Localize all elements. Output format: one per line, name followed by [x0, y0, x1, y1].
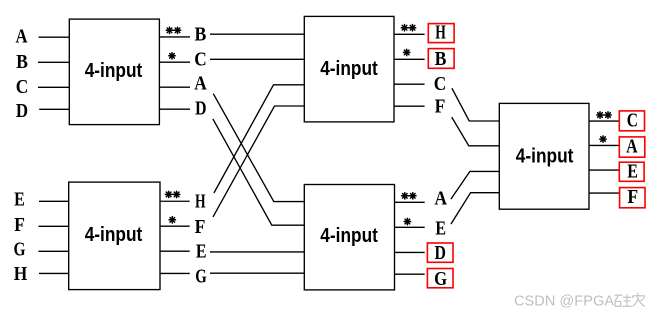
wire U5 output stub E	[160, 250, 190, 252]
4-input block U4	[499, 103, 589, 209]
svg-text:D: D	[195, 98, 206, 120]
wire U5 output stub H	[160, 200, 190, 202]
4-input block U3	[304, 185, 394, 290]
svg-text:A: A	[434, 188, 447, 210]
svg-text:D: D	[16, 100, 28, 122]
red result box E (U4 output 3)	[619, 162, 644, 181]
wire U1 output stub D	[159, 108, 190, 110]
wire U4 output stub E	[589, 169, 620, 171]
svg-text:H: H	[195, 191, 206, 213]
marker ** on U1 output 1	[166, 27, 180, 33]
red result box H (U2 output 1)	[428, 24, 454, 43]
svg-text:4-input: 4-input	[85, 59, 143, 82]
wire B to U2 input 1	[210, 33, 304, 35]
svg-text:4-input: 4-input	[320, 224, 378, 247]
marker * on U2 output 2	[404, 49, 410, 55]
svg-text:B: B	[195, 24, 207, 46]
svg-text:D: D	[435, 242, 446, 264]
svg-text:G: G	[434, 268, 447, 290]
wire U3 output stub A	[395, 201, 425, 203]
wire E to U3 input 3	[210, 251, 304, 253]
wire input H to U5	[39, 272, 69, 274]
wire U1 output stub A	[159, 86, 190, 88]
wire E to U4 input 4	[451, 193, 499, 224]
wire C to U2 input 2	[210, 58, 304, 60]
red result box C (U4 output 1)	[619, 111, 644, 131]
svg-text:4-input: 4-input	[85, 223, 143, 246]
4-input block U1	[69, 19, 159, 125]
wire input D to U1	[39, 108, 69, 110]
wire input E to U5	[39, 200, 69, 202]
marker ** on U5 output 1	[165, 191, 179, 197]
marker * on U4 output 2	[600, 136, 606, 142]
wire U3 output stub D	[395, 251, 425, 253]
svg-text:4-input: 4-input	[320, 57, 378, 80]
svg-text:CSDN @FPGA: CSDN @FPGA	[514, 293, 614, 309]
svg-text:C: C	[194, 49, 207, 71]
svg-text:E: E	[196, 240, 207, 262]
wire U3 output stub E	[395, 226, 425, 228]
marker * on U1 output 2	[169, 53, 175, 59]
wire F crossing up to U2 input 4	[213, 106, 304, 217]
marker ** on U4 output 1	[597, 112, 611, 118]
svg-text:F: F	[195, 216, 206, 238]
wire input F to U5	[39, 225, 69, 227]
wire A crossing down to U3 input 1	[213, 94, 304, 202]
wire H crossing up to U2 input 3	[214, 85, 304, 193]
red result box A (U4 output 2)	[619, 137, 645, 157]
svg-text:E: E	[14, 189, 25, 211]
svg-text:4-input: 4-input	[516, 145, 574, 168]
wire U2 output stub C	[394, 83, 425, 85]
svg-text:A: A	[16, 26, 28, 48]
wire U4 output stub A	[589, 144, 620, 146]
svg-text:F: F	[435, 95, 446, 117]
wire A to U4 input 3	[451, 171, 499, 199]
svg-text:A: A	[626, 135, 638, 157]
wire D crossing down to U3 input 2	[213, 119, 304, 225]
svg-text:C: C	[627, 110, 638, 132]
svg-text:E: E	[435, 217, 446, 239]
svg-text:H: H	[14, 263, 28, 285]
wire input B to U1	[38, 61, 69, 63]
svg-text:G: G	[14, 238, 26, 260]
red result box B (U2 output 2)	[428, 49, 454, 69]
marker ** on U2 output 1	[401, 24, 415, 30]
wire U3 output stub G	[395, 273, 425, 275]
wire U4 output stub C	[589, 120, 620, 122]
wire input G to U5	[39, 250, 69, 252]
svg-text:E: E	[627, 161, 638, 183]
wire input C to U1	[38, 86, 69, 88]
4-input block U2	[304, 16, 394, 122]
wire U1 output stub B	[159, 36, 190, 38]
wire U2 output stub H	[394, 33, 425, 35]
red result box D (U3 output 3)	[427, 243, 453, 262]
svg-text:C: C	[434, 73, 447, 95]
watermark hanzi nong	[633, 293, 645, 307]
wire C to U4 input 1	[452, 88, 499, 121]
wire U5 output stub F	[160, 225, 190, 227]
wire input A to U1	[39, 36, 70, 38]
wire U1 output stub C	[159, 61, 190, 63]
svg-text:G: G	[195, 266, 207, 288]
wire U5 output stub G	[160, 272, 190, 274]
marker ** on U3 output 1	[402, 193, 416, 199]
svg-text:F: F	[627, 186, 638, 208]
svg-text:H: H	[435, 21, 446, 43]
svg-text:C: C	[16, 76, 29, 98]
wire U4 output stub F	[589, 192, 620, 194]
wire U2 output stub B	[394, 58, 425, 60]
svg-text:A: A	[194, 73, 207, 95]
wire G to U3 input 4	[210, 272, 304, 274]
red result box F (U4 output 4)	[620, 188, 645, 208]
marker * on U3 output 2	[404, 218, 410, 224]
wire F to U4 input 2	[452, 117, 500, 146]
marker * on U5 output 2	[169, 217, 175, 223]
svg-text:B: B	[16, 51, 28, 73]
svg-text:B: B	[435, 48, 447, 70]
svg-text:F: F	[14, 214, 25, 236]
red result box G (U3 output 4)	[427, 269, 453, 288]
wire U2 output stub F	[394, 105, 425, 107]
4-input block U5	[69, 182, 160, 290]
watermark hanzi gui	[615, 294, 632, 306]
